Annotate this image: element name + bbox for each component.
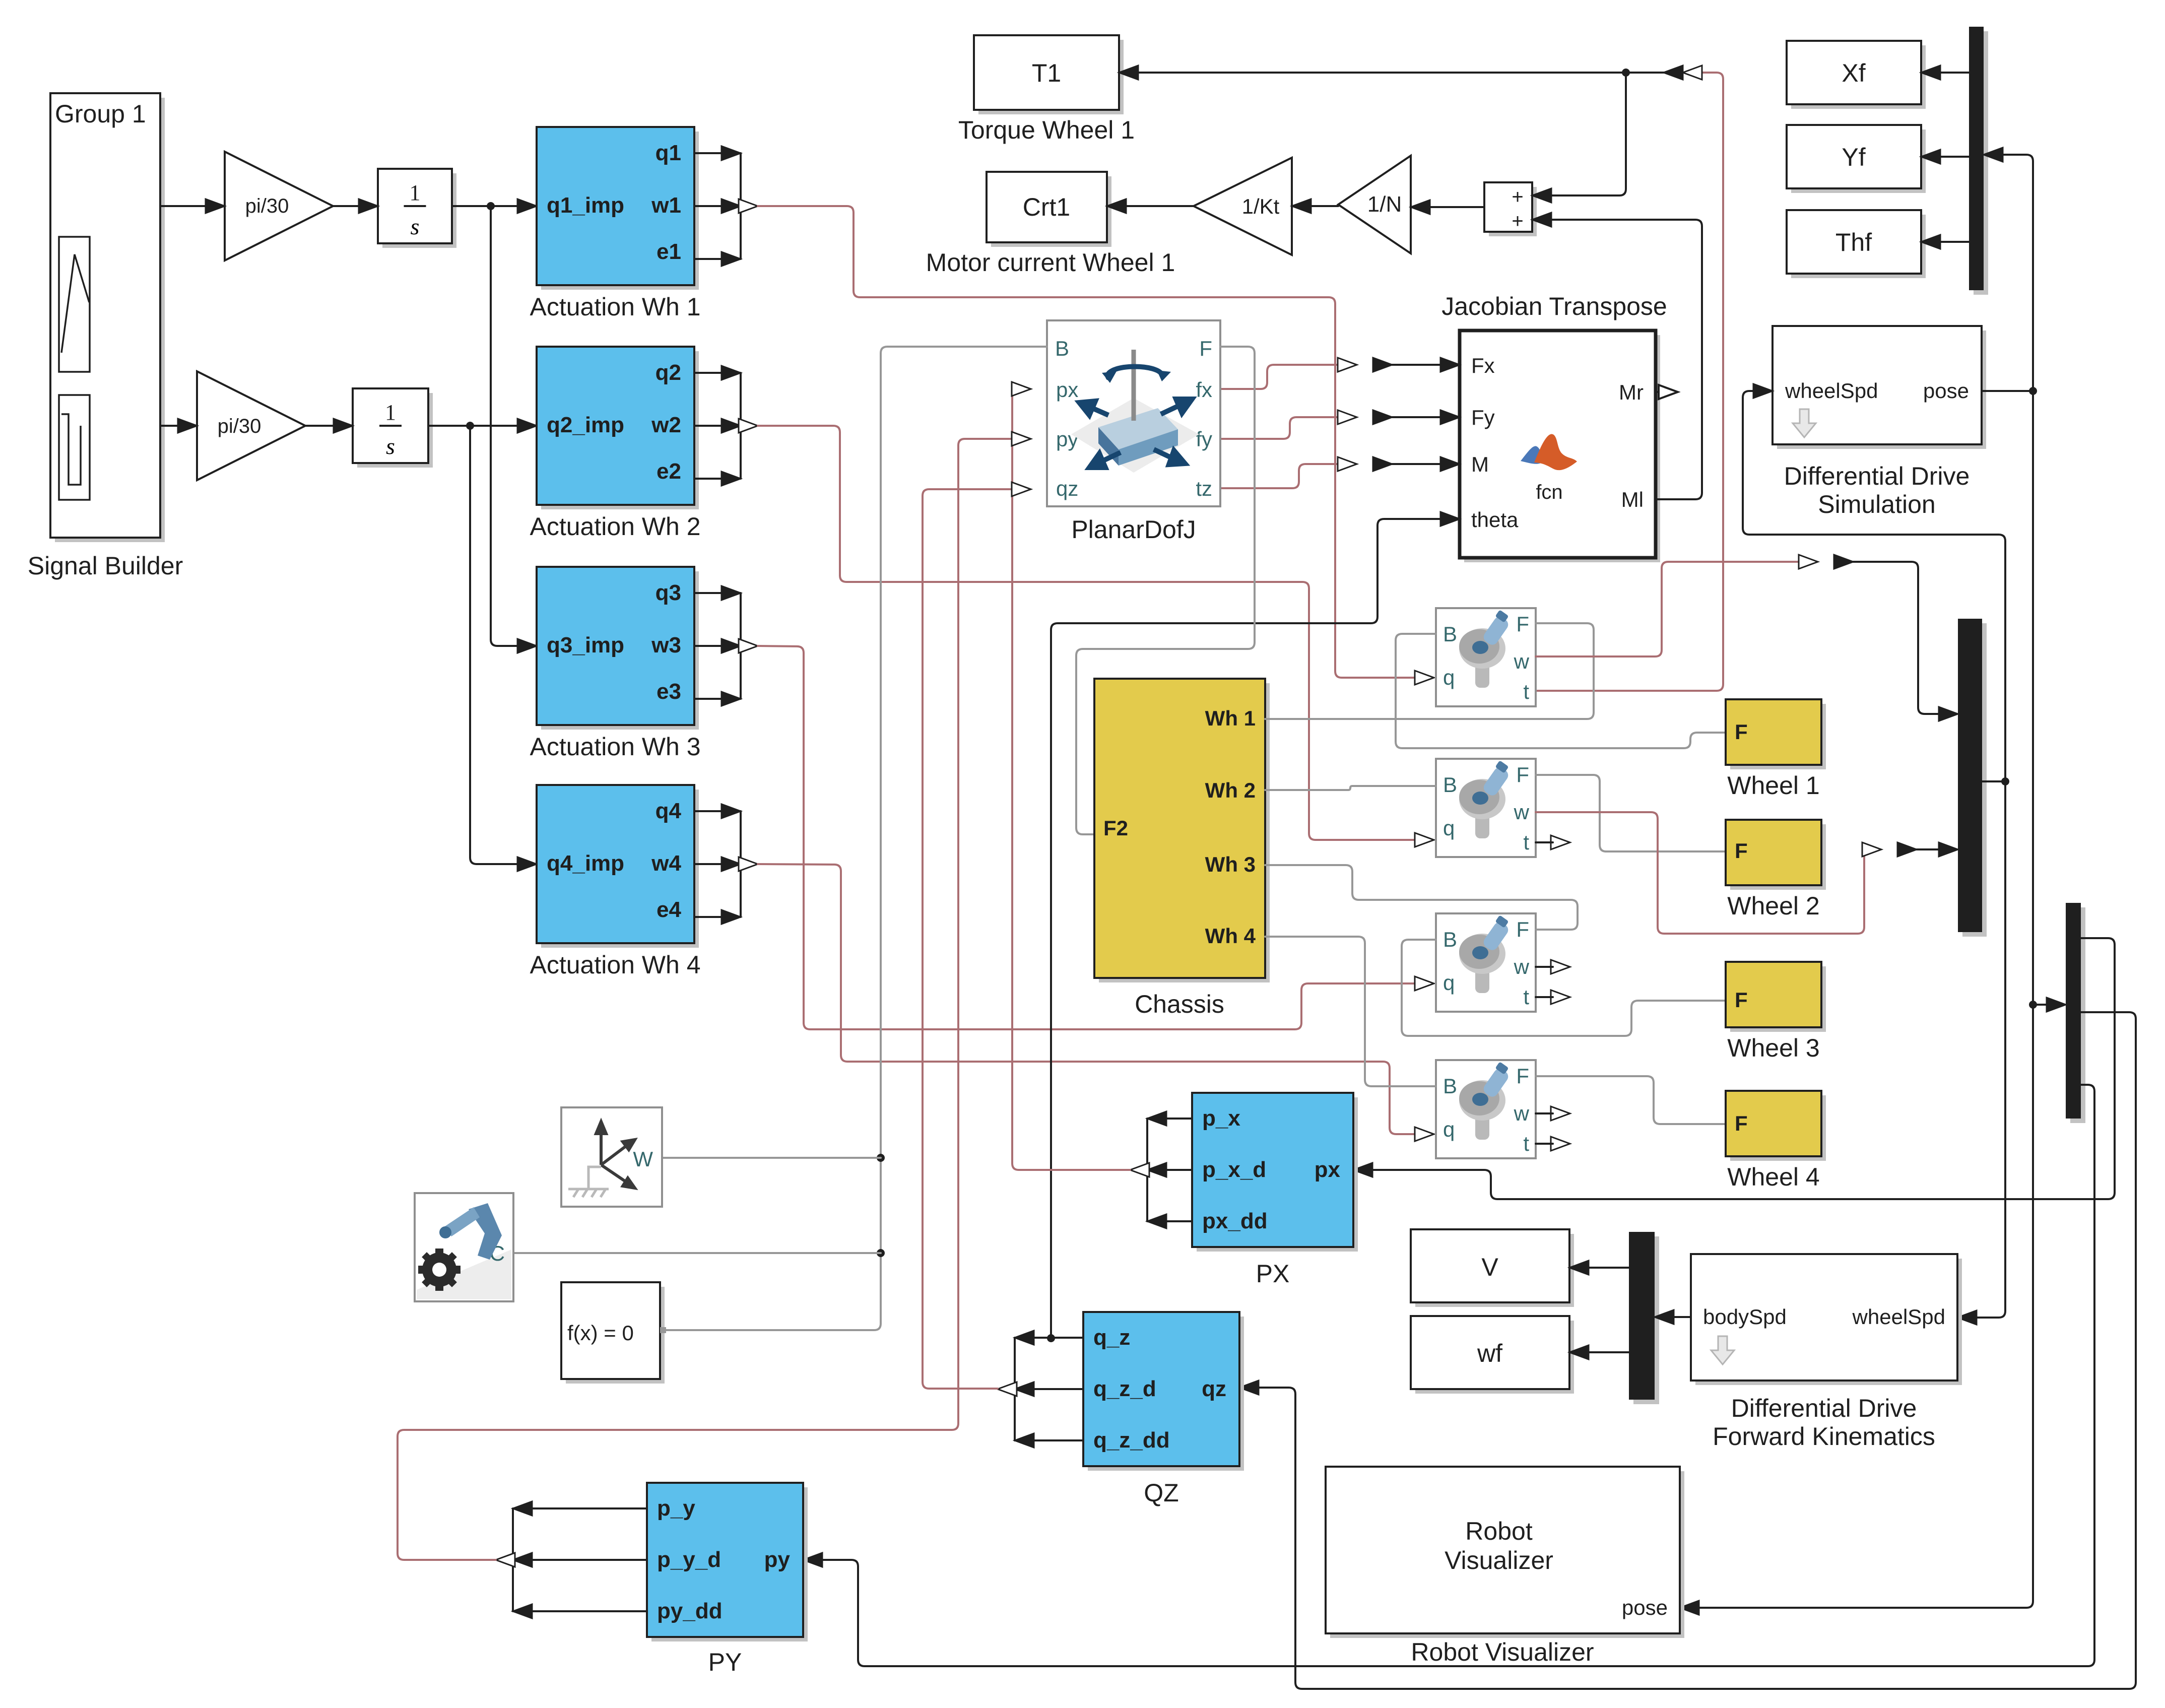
svg-text:px_dd: px_dd — [1202, 1209, 1268, 1233]
svg-text:e4: e4 — [657, 897, 681, 922]
wire 1/Kt->Crt1 — [1121, 205, 1194, 207]
svg-text:q1_imp: q1_imp — [547, 193, 624, 218]
block Chassis — [1099, 683, 1270, 982]
svg-text:w: w — [1514, 955, 1530, 978]
svg-text:py: py — [1056, 427, 1078, 451]
svg-text:Wheel 3: Wheel 3 — [1727, 1034, 1819, 1062]
block Signal Builder (Group 1) — [55, 98, 165, 542]
svg-text:B: B — [1443, 773, 1457, 797]
sum block — [1489, 187, 1537, 236]
wire w2 rose to joint2 q — [758, 426, 1417, 840]
svg-text:B: B — [1443, 622, 1457, 646]
block Wheel 2 — [1730, 824, 1826, 890]
svg-text:F: F — [1516, 1064, 1529, 1088]
block wheel joint 4 — [1436, 1060, 1536, 1158]
svg-text:w3: w3 — [651, 633, 681, 658]
wire gain2->integrator2 — [305, 425, 339, 427]
block PY — [651, 1487, 808, 1641]
wire joint2 F -> Wheel2 F — [1536, 775, 1726, 851]
wire joint1 t rose up to T1 line — [1536, 73, 1723, 691]
svg-text:1: 1 — [385, 400, 396, 425]
wire demux->V — [1584, 1267, 1629, 1269]
block Thf — [1791, 215, 1926, 278]
svg-text:QZ: QZ — [1144, 1479, 1178, 1507]
svg-text:fx: fx — [1196, 378, 1212, 402]
wire Chassis Wh3 -> joint3 F — [1265, 865, 1578, 930]
svg-text:p_y: p_y — [657, 1496, 695, 1521]
block Xf — [1791, 45, 1926, 109]
svg-text:fcn: fcn — [1536, 481, 1562, 503]
svg-text:F: F — [1199, 337, 1212, 360]
block wf — [1415, 1321, 1574, 1394]
block wheel joint 1 — [1436, 608, 1536, 706]
block Differential Drive Forward Kinematics — [1695, 1259, 1962, 1385]
junction C — [877, 1249, 885, 1257]
wire Actuation Wh 2 output mux bracket — [694, 372, 727, 374]
svg-text:F: F — [1516, 917, 1529, 941]
gain pi/30 #2 — [197, 371, 305, 480]
demux bar bodySpd — [1633, 1236, 1659, 1404]
svg-text:theta: theta — [1471, 508, 1519, 532]
svg-text:M: M — [1471, 452, 1489, 476]
wire fy->Fy — [1220, 417, 1343, 439]
svg-text:wheelSpd: wheelSpd — [1785, 379, 1878, 403]
svg-text:t: t — [1523, 985, 1529, 1009]
svg-text:w1: w1 — [651, 193, 681, 218]
svg-text:t: t — [1523, 830, 1529, 854]
wire pose demux out3 -> PY py — [817, 1085, 2094, 1666]
svg-text:B: B — [1055, 337, 1069, 360]
port arrow Mr (output) — [1656, 391, 1661, 393]
svg-text:pi/30: pi/30 — [218, 415, 261, 437]
block Wheel 1 — [1730, 704, 1826, 769]
wire Chassis Wh2 -> joint2 B — [1265, 786, 1436, 790]
port arrow joint3 w — [1551, 960, 1570, 974]
block QZ — [1088, 1317, 1244, 1471]
port arrow joint3 t — [1551, 990, 1570, 1004]
block Yf — [1791, 129, 1926, 193]
svg-text:Mr: Mr — [1619, 380, 1644, 404]
wire 1/N->1/Kt — [1306, 205, 1338, 207]
svg-text:Robot: Robot — [1465, 1517, 1533, 1545]
svg-text:F: F — [1516, 763, 1529, 786]
block Wheel 4 — [1730, 1095, 1826, 1161]
svg-text:Robot Visualizer: Robot Visualizer — [1411, 1638, 1594, 1666]
svg-text:q4_imp: q4_imp — [547, 851, 624, 876]
wire mux->Xf — [1935, 72, 1969, 74]
svg-text:e2: e2 — [657, 459, 681, 484]
gain 1/Kt — [1194, 158, 1292, 255]
wire gain1->integrator1 — [333, 205, 364, 207]
svg-text:W: W — [633, 1147, 653, 1171]
svg-text:Chassis: Chassis — [1135, 990, 1224, 1018]
svg-text:t: t — [1523, 680, 1529, 703]
block PlanarDofJ — [1047, 320, 1220, 506]
svg-text:py_dd: py_dd — [657, 1599, 723, 1623]
junction W — [877, 1154, 885, 1162]
port arrow joint4 t — [1551, 1137, 1570, 1151]
block Mechanism Configuration C — [415, 1193, 513, 1301]
block V — [1415, 1234, 1574, 1307]
wire pose net — [1982, 390, 2033, 392]
block f(x)=0 solver — [566, 1287, 665, 1384]
wire bodySpd->demux — [1669, 1316, 1691, 1318]
integrator 1/s #1 — [382, 173, 456, 248]
block Actuation Wh 1 — [541, 132, 699, 290]
wire w4 rose to joint4 q — [758, 864, 1417, 1134]
block Differential Drive Simulation — [1777, 331, 1986, 449]
svg-text:Xf: Xf — [1842, 59, 1865, 87]
svg-text:Wh 1: Wh 1 — [1205, 706, 1256, 730]
svg-text:Ml: Ml — [1621, 488, 1644, 511]
svg-text:Actuation Wh 2: Actuation Wh 2 — [530, 512, 700, 541]
svg-text:B: B — [1443, 1074, 1457, 1098]
svg-text:Jacobian Transpose: Jacobian Transpose — [1441, 292, 1667, 320]
svg-text:Visualizer: Visualizer — [1445, 1546, 1553, 1574]
wire fx->Fx — [1220, 365, 1343, 389]
svg-text:p_x: p_x — [1202, 1106, 1240, 1131]
wire joint4 F -> Wheel4 F — [1536, 1076, 1726, 1124]
wire SignalBuilder->gain2 — [160, 425, 183, 427]
wire T1 feed line — [1133, 72, 1683, 74]
svg-text:px: px — [1315, 1157, 1341, 1182]
wire w3 rose to joint3 q — [758, 646, 1417, 1029]
svg-text:Actuation Wh 3: Actuation Wh 3 — [530, 733, 700, 761]
svg-text:Yf: Yf — [1842, 143, 1865, 171]
wire joint1 w rose to mux1 — [1536, 562, 1804, 656]
svg-text:w: w — [1514, 800, 1530, 824]
block PX — [1197, 1097, 1358, 1252]
svg-text:Wheel 1: Wheel 1 — [1727, 771, 1819, 800]
svg-text:+: + — [1512, 186, 1523, 208]
svg-text:+: + — [1512, 210, 1523, 232]
mux bar mid (wheel speeds) — [1962, 623, 1987, 937]
svg-text:F: F — [1735, 839, 1748, 863]
svg-text:Group 1: Group 1 — [55, 100, 146, 128]
svg-text:q_z_dd: q_z_dd — [1093, 1428, 1170, 1453]
svg-text:PY: PY — [708, 1648, 742, 1676]
wire PX bracket -> px — [1012, 389, 1130, 1170]
svg-text:Forward Kinematics: Forward Kinematics — [1713, 1422, 1935, 1451]
svg-text:Thf: Thf — [1835, 228, 1872, 256]
svg-text:1/N: 1/N — [1367, 192, 1402, 217]
svg-text:q: q — [1443, 971, 1455, 995]
wire Chassis Wh4 -> joint4 B — [1265, 937, 1436, 1086]
wire w1 rose to joint1 q — [758, 206, 1417, 678]
svg-text:F: F — [1516, 612, 1529, 636]
svg-text:f(x) = 0: f(x) = 0 — [567, 1321, 634, 1345]
wire W frame to net — [662, 1157, 881, 1159]
svg-text:q_z_d: q_z_d — [1093, 1376, 1156, 1401]
block T1 (Torque Wheel 1) — [978, 40, 1124, 114]
svg-text:F: F — [1735, 988, 1748, 1012]
block Jacobian Transpose fcn — [1464, 335, 1660, 562]
wire QZ bracket -> qz — [923, 489, 1017, 1389]
block wheel joint 2 — [1436, 759, 1536, 857]
svg-text:px: px — [1056, 378, 1078, 402]
svg-text:qz: qz — [1202, 1376, 1226, 1401]
wire demux->wf — [1584, 1351, 1629, 1353]
wire F to F2 chassis — [1076, 347, 1255, 834]
svg-text:q2: q2 — [655, 360, 681, 385]
block Actuation Wh 3 — [541, 571, 699, 730]
svg-text:w2: w2 — [651, 413, 681, 437]
svg-text:Fx: Fx — [1471, 354, 1495, 377]
svg-text:tz: tz — [1196, 477, 1212, 500]
block Robot Visualizer — [1330, 1471, 1684, 1638]
svg-text:q: q — [1443, 1118, 1455, 1141]
svg-text:pi/30: pi/30 — [245, 195, 289, 217]
svg-text:q_z: q_z — [1093, 1325, 1130, 1350]
svg-text:q3: q3 — [655, 580, 681, 605]
wire C config to net — [513, 1252, 881, 1254]
svg-text:1/Kt: 1/Kt — [1242, 194, 1280, 218]
icon PlanarDofJ 3D joint — [1071, 350, 1199, 473]
svg-text:PlanarDofJ: PlanarDofJ — [1071, 515, 1196, 544]
svg-text:T1: T1 — [1032, 59, 1061, 87]
wire pose demux out2 -> QZ qz — [1254, 1012, 2136, 1689]
svg-text:bodySpd: bodySpd — [1703, 1305, 1787, 1329]
icon MATLAB logo in fcn — [1521, 446, 1545, 464]
demux bar pose — [2070, 907, 2085, 1123]
svg-text:Fy: Fy — [1471, 406, 1495, 429]
svg-text:q2_imp: q2_imp — [547, 413, 624, 437]
mux bar top-right — [1974, 31, 1988, 295]
wire tz->M — [1220, 464, 1343, 488]
wire Chassis Wh1 -> joint1 F — [1265, 623, 1594, 719]
svg-text:Differential Drive: Differential Drive — [1784, 462, 1970, 490]
svg-text:wheelSpd: wheelSpd — [1852, 1305, 1945, 1329]
wire Actuation Wh 3 output mux bracket — [694, 592, 727, 594]
port arrow joint2 t — [1551, 835, 1570, 849]
wire joint3 B -> Wheel3 F — [1402, 940, 1726, 1036]
svg-text:Torque Wheel 1: Torque Wheel 1 — [958, 116, 1135, 144]
block Actuation Wh 2 — [541, 351, 699, 509]
svg-text:q1: q1 — [655, 141, 681, 165]
svg-text:wf: wf — [1477, 1339, 1502, 1367]
svg-text:Crt1: Crt1 — [1023, 193, 1070, 221]
block Wheel 3 — [1730, 966, 1826, 1032]
gain 1/N — [1338, 156, 1411, 253]
svg-text:F: F — [1735, 1111, 1748, 1135]
wire joint1 B -> Wheel1 F — [1396, 634, 1726, 748]
svg-text:Wheel 2: Wheel 2 — [1727, 892, 1819, 920]
svg-text:w: w — [1514, 649, 1530, 673]
svg-text:q: q — [1443, 816, 1455, 840]
gain pi/30 #1 — [225, 152, 333, 260]
svg-text:pose: pose — [1622, 1596, 1668, 1619]
svg-text:B: B — [1443, 928, 1457, 951]
svg-text:Simulation: Simulation — [1818, 490, 1935, 518]
wire integrator1->ActuationWh1 (branch to Wh3) — [452, 205, 522, 207]
block Crt1 (Motor current Wheel 1) — [991, 176, 1111, 247]
svg-text:w4: w4 — [651, 851, 681, 876]
svg-text:Wh 2: Wh 2 — [1205, 778, 1256, 802]
block World Frame W — [561, 1107, 662, 1207]
wire Actuation Wh 1 output mux bracket — [694, 152, 727, 154]
junction q_z theta — [1047, 1334, 1055, 1342]
wire integrator2->ActuationWh2 (branch to Wh4) — [428, 425, 522, 427]
wire PY bracket -> py — [398, 439, 1017, 1560]
svg-text:Signal Builder: Signal Builder — [28, 552, 183, 580]
wire mux1 out to wheelSpd inputs — [1982, 780, 2005, 782]
svg-text:pose: pose — [1923, 379, 1969, 403]
svg-text:F: F — [1735, 720, 1748, 744]
wire SignalBuilder->gain1 — [160, 205, 211, 207]
svg-text:fy: fy — [1196, 427, 1212, 451]
block Actuation Wh 4 — [541, 790, 699, 948]
svg-text:w: w — [1514, 1101, 1530, 1125]
svg-text:py: py — [764, 1547, 791, 1572]
svg-text:Differential Drive: Differential Drive — [1731, 1394, 1917, 1422]
svg-text:p_x_d: p_x_d — [1202, 1157, 1266, 1182]
port arrow joint4 w — [1551, 1106, 1570, 1121]
svg-text:s: s — [411, 214, 420, 239]
svg-text:Actuation Wh 4: Actuation Wh 4 — [530, 951, 700, 979]
svg-text:e1: e1 — [657, 239, 681, 264]
block wheel joint 3 — [1436, 913, 1536, 1012]
wire Ml -> sum input 2 — [1546, 220, 1702, 499]
svg-text:qz: qz — [1056, 477, 1078, 500]
svg-text:Motor current Wheel 1: Motor current Wheel 1 — [926, 248, 1175, 277]
wire mux->Yf — [1935, 156, 1969, 158]
wire theta input — [1051, 519, 1446, 1338]
svg-text:p_y_d: p_y_d — [657, 1547, 721, 1572]
wire Actuation Wh 4 output mux bracket — [694, 810, 727, 812]
wire pose demux out1 -> PX px — [1367, 938, 2115, 1199]
svg-text:Wheel 4: Wheel 4 — [1727, 1163, 1819, 1191]
svg-text:q4: q4 — [655, 799, 682, 823]
svg-text:Actuation Wh 1: Actuation Wh 1 — [530, 293, 700, 321]
svg-text:s: s — [386, 433, 395, 459]
svg-text:q3_imp: q3_imp — [547, 633, 624, 658]
wire f(x)=0 to B net — [663, 347, 1047, 1330]
svg-text:F2: F2 — [1103, 816, 1128, 840]
wire sum->1/N — [1425, 206, 1484, 208]
svg-text:Wh 3: Wh 3 — [1205, 852, 1256, 876]
svg-text:t: t — [1523, 1132, 1529, 1155]
svg-text:1: 1 — [410, 180, 421, 205]
wire mux->Thf — [1935, 241, 1969, 243]
svg-text:V: V — [1481, 1253, 1498, 1281]
integrator 1/s #2 — [357, 393, 433, 468]
svg-text:PX: PX — [1256, 1260, 1290, 1288]
svg-text:Wh 4: Wh 4 — [1205, 924, 1256, 948]
svg-text:q: q — [1443, 666, 1455, 689]
wire junction down to sum input 1 — [1546, 73, 1626, 195]
svg-text:e3: e3 — [657, 679, 681, 704]
wire joint2 w rose to mux1 — [1536, 812, 1867, 934]
